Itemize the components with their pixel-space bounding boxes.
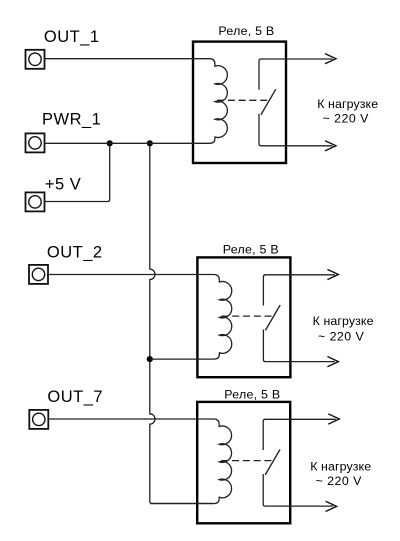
wire +5 V to PWR junction	[45, 143, 110, 201]
relay K1 contact: top fixed contact + output wire	[259, 59, 333, 90]
relay K2 contact: bottom contact + output wire	[263, 330, 335, 362]
relay K1 contact: movable arm	[261, 89, 276, 114]
dashed mechanical link K1	[217, 99, 268, 101]
wire + relay K2 coil (from K2 input terminal to PWR bus)	[48, 275, 232, 360]
relay K2 contact: movable arm	[265, 305, 280, 330]
terminal pad PWR_1	[26, 133, 45, 152]
svg-text:OUT_2: OUT_2	[47, 243, 103, 261]
junction PWR / +5V	[107, 140, 113, 146]
terminal pad OUT_7	[29, 410, 48, 429]
svg-text:OUT_1: OUT_1	[44, 28, 100, 46]
svg-text:Реле, 5 В: Реле, 5 В	[223, 243, 279, 257]
relay K2 box	[197, 257, 290, 377]
arrow K3 top output to load	[328, 414, 339, 424]
terminal pad OUT_2	[29, 265, 48, 284]
arrow K1 bottom output to load	[325, 141, 336, 151]
wire PWR bus vertical with hops over OUT_2 and OUT_7 wires	[150, 143, 213, 503]
svg-text:~ 220 V: ~ 220 V	[323, 111, 369, 125]
arrow K2 top output to load	[327, 269, 338, 279]
relay K3 contact: bottom contact + output wire	[263, 474, 333, 506]
svg-text:К нагрузке: К нагрузке	[313, 314, 374, 328]
relay K1 box	[193, 42, 286, 163]
relay K3 contact: top fixed contact + output wire	[263, 419, 336, 450]
svg-text:~ 220 V: ~ 220 V	[318, 329, 364, 343]
svg-text:+5 V: +5 V	[45, 176, 81, 194]
relay K1 contact: bottom contact + output wire	[259, 114, 333, 146]
svg-text:К нагрузке: К нагрузке	[317, 97, 378, 111]
svg-text:Реле, 5 В: Реле, 5 В	[224, 388, 280, 402]
relay K2 contact: top fixed contact + output wire	[263, 275, 335, 306]
arrow K1 top output to load	[325, 54, 336, 64]
terminal pad +5V	[26, 192, 45, 211]
svg-text:~ 220 V: ~ 220 V	[316, 474, 362, 488]
wire + relay K1 coil (from K1 input terminal to PWR bus)	[45, 59, 228, 144]
relay K3 box	[197, 402, 290, 523]
dashed mechanical link K2	[221, 315, 272, 317]
junction PWR bus to K2 coil	[147, 356, 153, 362]
wire + relay K3 coil (from K3 input terminal to PWR bus)	[48, 419, 231, 504]
terminal pad OUT_1	[26, 50, 45, 69]
junction PWR bus top	[147, 140, 153, 146]
svg-text:Реле, 5 В: Реле, 5 В	[218, 24, 274, 38]
svg-text:PWR_1: PWR_1	[42, 111, 101, 129]
arrow K3 bottom output to load	[326, 501, 337, 511]
dashed mechanical link K3	[221, 460, 272, 462]
relay K3 contact: movable arm	[265, 450, 280, 475]
svg-text:К нагрузке: К нагрузке	[310, 460, 371, 474]
svg-text:OUT_7: OUT_7	[47, 388, 103, 406]
arrow K2 bottom output to load	[327, 357, 338, 367]
